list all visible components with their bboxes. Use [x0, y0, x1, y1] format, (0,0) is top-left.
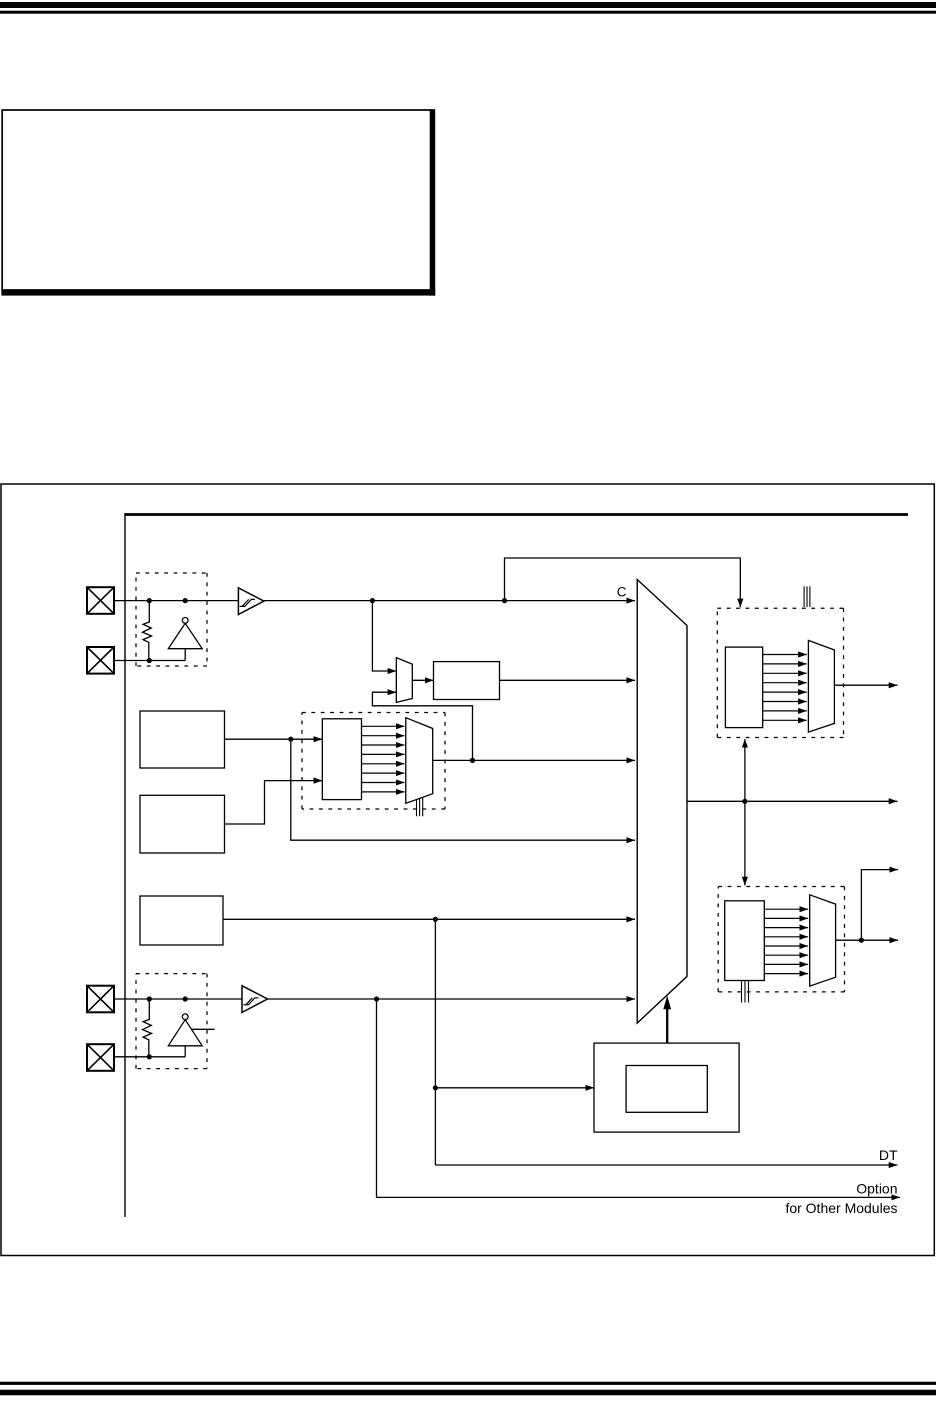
wire capture output [836, 939, 898, 941]
wire tap to mux0 input 2 [372, 692, 472, 760]
wire box1 to register A [225, 738, 323, 740]
control stub into inverter [192, 1028, 215, 1030]
pin 2 [87, 647, 114, 674]
select control arrow to selector [663, 996, 671, 1044]
input filter box 2 (dashed) [136, 974, 207, 1069]
node junction [742, 799, 747, 804]
block box 2 [140, 795, 225, 853]
wire pin3 to buffer [114, 998, 242, 1000]
feedback wire to compare box [505, 558, 741, 607]
schmitt buffer 1 [238, 588, 264, 615]
register C [725, 901, 765, 981]
page header rules [0, 2, 936, 8]
svg-text:DT: DT [879, 1147, 898, 1163]
wire compare output [834, 684, 897, 686]
register A [322, 719, 361, 800]
pin 4 [87, 1044, 114, 1071]
main wire from buffer1 to selector input C [264, 600, 635, 602]
wire box2 to register A [225, 781, 323, 824]
DT output wire [435, 1164, 897, 1166]
mux A [406, 718, 433, 804]
schmitt buffer 2 [242, 986, 268, 1013]
select lines above compare cell [804, 586, 810, 607]
inverter U2 [168, 1014, 202, 1057]
page footer rules [0, 1382, 936, 1385]
node junction [183, 598, 188, 603]
wire pin1 to buffer [114, 600, 238, 602]
node junction [433, 1085, 438, 1090]
wire mux0 to counter box [412, 679, 433, 681]
node junction [183, 996, 188, 1001]
register B [725, 647, 762, 728]
wire down from box3 node [434, 919, 436, 1165]
pin 3 [87, 986, 114, 1013]
wire buffer2 to selector [268, 998, 636, 1000]
mux 0 [396, 658, 412, 703]
node junction [859, 938, 864, 943]
register cell A (dashed) [302, 713, 445, 810]
compare cell (dashed) [717, 608, 843, 737]
wire mux A output to selector [433, 759, 635, 761]
input filter box 1 (dashed) [136, 573, 207, 666]
wire to other modules [377, 999, 901, 1197]
wire box1 branch to selector [291, 739, 635, 840]
svg-text:for Other Modules: for Other Modules [785, 1200, 897, 1216]
mux C [810, 895, 836, 986]
wire pin4 [114, 1056, 185, 1058]
node junction [374, 996, 379, 1001]
node junction [502, 598, 507, 603]
internal bus wire [687, 800, 897, 802]
select lines below mux A [417, 797, 423, 816]
node junction [147, 658, 152, 663]
wire to mux0 input 1 [372, 601, 396, 671]
svg-text:C: C [617, 585, 627, 600]
pin 1 [87, 587, 114, 614]
bidirectional wire up to compare cell [744, 739, 746, 801]
bus arrows register B to mux B [763, 655, 807, 721]
node junction [147, 598, 152, 603]
block box 1 [140, 711, 225, 768]
node junction [470, 758, 475, 763]
bidirectional wire down to capture cell [744, 801, 746, 885]
node junction [370, 598, 375, 603]
figure frame [1, 484, 934, 1256]
select box inner [626, 1066, 707, 1113]
wire counter to selector [500, 679, 636, 681]
node junction [147, 1054, 152, 1059]
select lines below register C [742, 981, 749, 1003]
capture cell (dashed) [718, 887, 844, 992]
block box 3 [140, 896, 223, 945]
mux B [808, 640, 834, 732]
wire to select box [435, 1087, 594, 1089]
svg-text:Option: Option [856, 1181, 897, 1197]
resistor (pull-up) [143, 601, 152, 661]
title shadow box [1, 109, 435, 295]
select box outer [594, 1043, 739, 1132]
bus arrows register A to mux A [362, 726, 405, 792]
node junction [147, 996, 152, 1001]
wire capture output branch up [861, 870, 898, 941]
resistor (pull-up) [143, 999, 152, 1057]
node junction [433, 917, 438, 922]
inverter U1 [168, 618, 202, 661]
input selector (big trapezoid) [637, 580, 687, 1024]
wire pin2 [114, 660, 185, 662]
module boundary [125, 513, 908, 516]
counter box [434, 662, 500, 700]
bus arrows register C to mux C [764, 909, 808, 973]
node junction [288, 737, 293, 742]
wire box3 to selector [223, 918, 635, 920]
